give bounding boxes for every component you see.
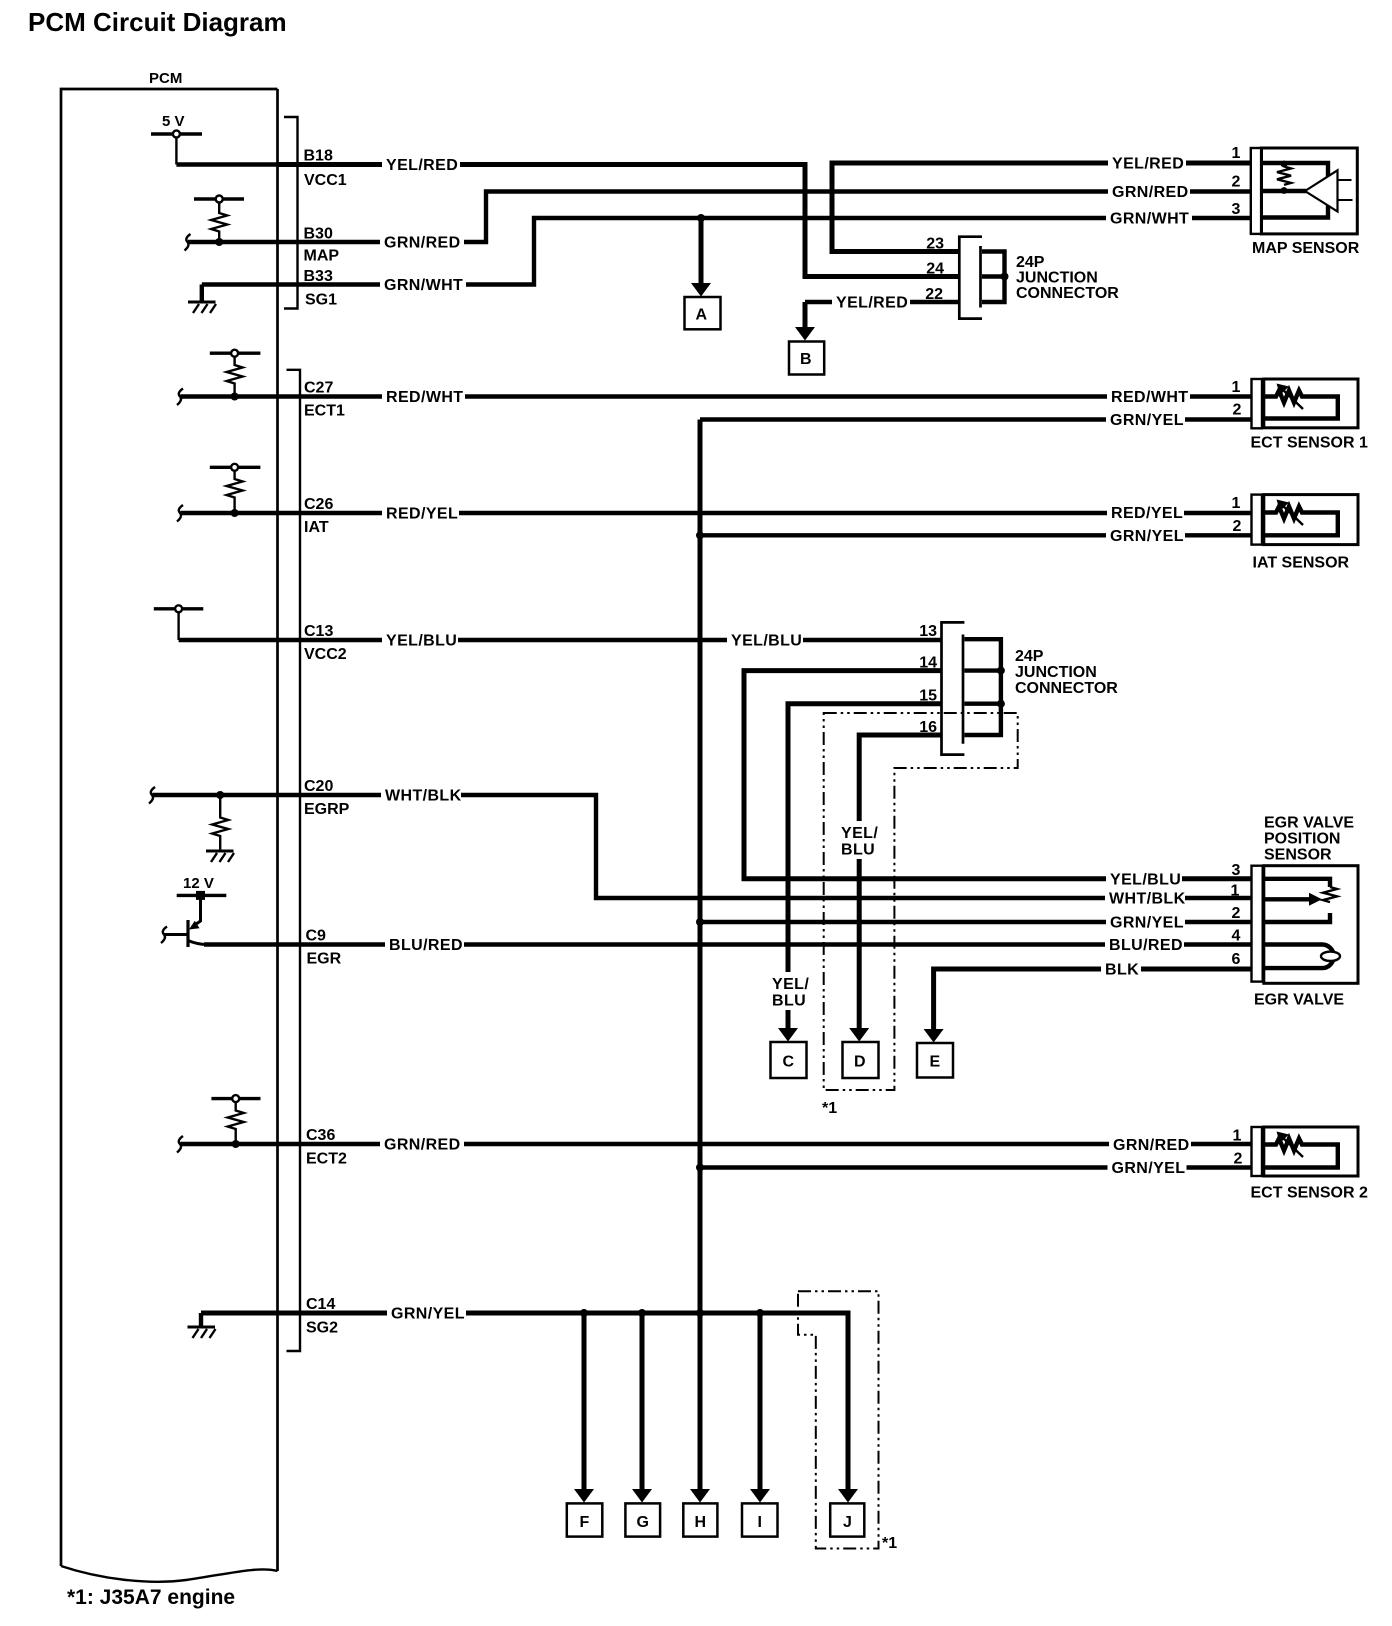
svg-text:GRN/WHT: GRN/WHT [384,277,463,294]
svg-text:YEL/: YEL/ [772,976,809,993]
resistor pull-up C36 [211,1095,260,1144]
ground C20 [206,851,234,862]
label YEL/RED MAP pin1 [1108,155,1186,173]
ground SG1 [188,285,216,314]
label YEL/BLU C13 [382,632,458,650]
junction dot C26 resistor [231,509,239,517]
label GRN/RED C36 [380,1136,464,1154]
svg-text:YEL/RED: YEL/RED [386,157,458,174]
ECT sensor 2 connector strip [1252,1127,1263,1176]
junction dot F [580,1309,588,1317]
connector bracket B group [284,117,298,309]
svg-text:WHT/BLK: WHT/BLK [385,788,462,805]
EGR valve solenoid [1264,945,1340,969]
label GRN/RED B30 [380,234,464,252]
wire B18 YEL/RED to junction pin 24 [278,165,960,277]
svg-text:C27: C27 [304,380,333,397]
wire transistor base [165,933,189,936]
svg-text:*1: *1 [882,1535,897,1552]
label YEL/BLU junction pin13 [727,632,803,650]
svg-text:GRN/RED: GRN/RED [1112,184,1189,201]
junction dot IAT GRN/YEL trunk [696,531,704,539]
wire junction pin 23 to MAP pin 1 [832,163,1251,252]
box I [742,1503,778,1536]
box A [685,297,721,329]
MAP pin numbers [1232,145,1241,218]
MAP sensor internals [1262,161,1353,218]
svg-text:EGR VALVE: EGR VALVE [1264,815,1354,832]
svg-text:1: 1 [1231,882,1240,899]
continuation tick B30 [185,234,191,251]
svg-text:MAP: MAP [304,248,340,265]
wire C9 BLU/RED to EGR pin 4 [204,942,1251,946]
svg-text:C26: C26 [304,496,333,513]
svg-text:E: E [930,1054,941,1071]
wire to F [582,1313,587,1496]
transistor Q EGR driver [188,895,207,947]
svg-text:ECT1: ECT1 [304,403,345,420]
connector bracket C group [287,370,301,1351]
junction dot H trunk [696,1309,704,1317]
label GRN/WHT MAP pin3 [1106,210,1192,228]
svg-text:1: 1 [1232,379,1241,396]
svg-text:RED/WHT: RED/WHT [1111,389,1188,406]
box F [567,1503,603,1536]
junction dot C20 resistor [216,791,224,799]
ground SG2 [188,1313,216,1338]
svg-text:RED/YEL: RED/YEL [1111,505,1183,522]
svg-text:C20: C20 [304,778,333,795]
svg-text:B30: B30 [304,226,333,243]
junction dot G [638,1309,646,1317]
svg-text:ECT SENSOR 1: ECT SENSOR 1 [1251,435,1368,452]
label RED/WHT C27 [382,388,465,406]
label GRN/RED ECT2 pin1 [1109,1136,1191,1154]
svg-text:F: F [580,1514,590,1531]
label GRN/YEL C14 [387,1305,466,1323]
box H [683,1503,717,1536]
label GRN/RED MAP pin2 [1108,183,1190,201]
svg-text:B18: B18 [304,148,333,165]
label GRN/YEL ECT2 pin2 [1108,1159,1187,1177]
svg-text:13: 13 [919,623,937,640]
junction dot trunk EGR GRN/YEL [696,918,704,926]
svg-text:GRN/RED: GRN/RED [384,235,461,252]
svg-text:EGR VALVE: EGR VALVE [1254,992,1344,1009]
label YEL/BLU EGR pin3 [1106,870,1182,888]
junction connector 1 text [1016,254,1119,302]
junction dot trunk ECT2 GRN/YEL [696,1164,704,1172]
label GRN/WHT B33 [380,276,466,294]
svg-text:*1: J35A7 engine: *1: J35A7 engine [67,1586,235,1609]
dash-dot region J *1 [798,1291,879,1548]
box C [771,1042,807,1078]
arrow to E [924,1029,944,1043]
resistor pull-up C26 [210,464,261,513]
wire C14 SG2 GRN/YEL bus [201,1313,848,1496]
box D [843,1042,879,1078]
wire junction pin 14 to EGR pin 3 YEL/BLU [744,671,1251,879]
svg-text:D: D [854,1054,866,1071]
continuation tick C20 [149,787,155,804]
svg-text:BLU/RED: BLU/RED [389,937,463,954]
continuation tick transistor base [161,927,167,944]
label YEL/RED B18 [382,156,460,174]
wire junction pin 15 to C [788,704,942,1030]
arrow to D [849,1028,869,1042]
box J [830,1503,864,1536]
label RED/YEL C26 [382,505,459,523]
junction dot I [756,1309,764,1317]
label BLU/RED C9 [385,936,464,954]
junction dot C27 resistor [231,393,239,401]
24P junction connector 1 [959,237,982,319]
label RED/WHT ECT1 pin1 [1107,388,1190,406]
label BLU/RED EGR pin4 [1105,936,1184,954]
svg-text:MAP SENSOR: MAP SENSOR [1252,240,1360,257]
label GRN/YEL ECT1 pin2 [1106,411,1185,429]
ECT sensor 2 pin numbers [1233,1128,1243,1168]
arrow to G [632,1489,652,1503]
svg-text:24P: 24P [1016,254,1045,271]
label YEL/RED pin22 [832,294,910,312]
svg-text:3: 3 [1232,862,1241,879]
svg-text:SG2: SG2 [306,1320,338,1337]
svg-text:23: 23 [926,236,944,253]
wire GRN/YEL trunk to IAT sensor pin 2 [700,533,1251,537]
ECT sensor 1 connector strip [1252,379,1263,428]
wire C36 GRN/RED to ECT sensor 2 pin 1 [181,1142,1252,1146]
arrow to C [778,1028,798,1042]
svg-text:C9: C9 [306,928,327,945]
label YEL/BLU D column [838,821,882,859]
wire C27 RED/WHT to ECT sensor 1 pin 1 [181,394,1252,398]
svg-text:3: 3 [1232,201,1241,218]
wire junction pin 16 to D [859,735,941,1030]
ECT sensor 1 thermistor [1264,384,1338,419]
ECT sensor 2 thermistor [1264,1132,1338,1168]
ECT sensor 1 pin numbers [1232,379,1242,419]
sensor ground trunk [698,420,703,1497]
svg-text:BLK: BLK [1105,962,1139,979]
resistor pull-up B30 [194,196,244,243]
svg-text:GRN/YEL: GRN/YEL [391,1306,465,1323]
svg-text:GRN/WHT: GRN/WHT [1110,211,1189,228]
svg-text:2: 2 [1232,905,1241,922]
svg-text:*1: *1 [822,1100,837,1117]
svg-text:CONNECTOR: CONNECTOR [1015,680,1118,697]
wire C13 YEL/BLU to junction pin 13 [179,638,942,642]
arrow to H [690,1489,710,1503]
label WHT/BLK EGR pin1 [1105,890,1186,908]
svg-text:4: 4 [1232,927,1241,944]
svg-text:VCC2: VCC2 [304,646,347,663]
svg-text:IAT SENSOR: IAT SENSOR [1253,555,1350,572]
5V supply VCC1 [151,113,202,165]
svg-text:C36: C36 [306,1127,335,1144]
junction dot B30 resistor [215,238,223,246]
svg-text:12 V: 12 V [183,875,214,892]
wire BLK EGR pin 6 to E [934,969,1251,1031]
label RED/YEL IAT pin1 [1107,504,1184,522]
svg-text:GRN/YEL: GRN/YEL [1110,412,1184,429]
svg-text:EGR: EGR [307,951,342,968]
svg-text:I: I [758,1514,762,1531]
EGR VALVE POSITION SENSOR label [1264,815,1354,864]
svg-text:2: 2 [1234,1151,1243,1168]
svg-text:BLU/RED: BLU/RED [1109,937,1183,954]
arrow to I [750,1489,770,1503]
EGR pin numbers [1231,862,1241,968]
EGR valve connector strip [1252,866,1263,982]
svg-text:H: H [695,1514,707,1531]
junction connector 1 right bracket [982,252,1009,303]
label WHT/BLK C20 [381,787,462,805]
svg-text:GRN/YEL: GRN/YEL [1110,915,1184,932]
continuation tick C26 [177,505,183,522]
MAP sensor box [1262,148,1358,234]
12V supply [177,875,227,900]
arrow to F [574,1489,594,1503]
svg-text:IAT: IAT [304,519,329,536]
wire to I [758,1313,763,1496]
svg-text:ECT SENSOR 2: ECT SENSOR 2 [1251,1185,1368,1202]
ECT sensor 1 box [1264,379,1358,428]
wire to G [640,1313,645,1496]
label GRN/YEL IAT pin2 [1106,527,1185,545]
svg-text:POSITION: POSITION [1264,831,1340,848]
svg-text:YEL/BLU: YEL/BLU [1110,871,1181,888]
svg-text:B: B [800,351,812,368]
svg-text:WHT/BLK: WHT/BLK [1109,891,1186,908]
svg-text:6: 6 [1232,951,1241,968]
svg-text:YEL/RED: YEL/RED [1112,156,1184,173]
svg-text:VCC1: VCC1 [304,172,347,189]
svg-text:BLU: BLU [772,993,806,1010]
wire GRN/YEL trunk to EGR pin 2 [700,920,1251,924]
IAT sensor connector strip [1252,495,1263,545]
svg-text:PCM: PCM [149,70,182,87]
svg-text:CONNECTOR: CONNECTOR [1016,285,1119,302]
PCM box [61,89,278,1582]
continuation tick C36 [177,1136,183,1153]
label YEL/BLU C column [769,972,813,1010]
svg-text:1: 1 [1233,1128,1242,1145]
svg-text:BLU: BLU [841,842,875,859]
svg-text:RED/YEL: RED/YEL [386,506,458,523]
wire GRN/YEL trunk to ECT sensor 2 pin 2 [700,1165,1251,1169]
box E [917,1043,953,1078]
svg-text:C13: C13 [304,623,333,640]
svg-text:SG1: SG1 [305,292,337,309]
svg-text:SENSOR: SENSOR [1264,847,1332,864]
box G [625,1503,660,1536]
svg-text:GRN/RED: GRN/RED [384,1137,461,1154]
svg-text:24: 24 [926,261,944,278]
junction connector 2 right bracket [964,639,1005,735]
svg-text:YEL/RED: YEL/RED [836,295,908,312]
IAT sensor pin numbers [1232,495,1242,535]
svg-text:C: C [783,1054,795,1071]
label BLK EGR pin6 [1101,961,1141,979]
svg-text:GRN/RED: GRN/RED [1113,1137,1190,1154]
svg-text:ECT2: ECT2 [306,1151,347,1168]
svg-text:YEL/BLU: YEL/BLU [731,633,802,650]
arrow to J [838,1489,858,1503]
svg-text:YEL/BLU: YEL/BLU [386,633,457,650]
svg-text:A: A [696,307,708,324]
svg-text:2: 2 [1233,402,1242,419]
IAT sensor thermistor [1264,500,1338,536]
svg-text:C14: C14 [306,1296,335,1313]
svg-text:EGRP: EGRP [304,801,350,818]
svg-text:B33: B33 [304,268,333,285]
svg-text:1: 1 [1232,145,1241,162]
svg-text:G: G [637,1514,649,1531]
svg-text:2: 2 [1232,174,1241,191]
arrow to B [795,302,815,341]
svg-text:J: J [843,1514,852,1531]
IAT sensor box [1264,495,1358,545]
arrow to A [691,218,711,297]
svg-text:PCM Circuit Diagram: PCM Circuit Diagram [28,7,287,37]
svg-text:GRN/YEL: GRN/YEL [1112,1160,1186,1177]
EGR valve box [1264,866,1358,984]
dash-dot region D *1 [824,713,1018,1090]
ECT sensor 2 box [1264,1127,1358,1176]
svg-text:2: 2 [1233,518,1242,535]
svg-text:22: 22 [925,286,943,303]
svg-text:GRN/YEL: GRN/YEL [1110,528,1184,545]
24P junction connector 2 [942,622,965,754]
wire C26 RED/YEL to IAT sensor pin 1 [181,511,1252,515]
svg-text:5 V: 5 V [162,113,185,130]
svg-text:YEL/: YEL/ [841,825,878,842]
resistor pull-up C27 [210,350,261,397]
svg-text:JUNCTION: JUNCTION [1016,270,1098,287]
continuation tick C27 [177,389,183,406]
MAP sensor connector strip [1251,148,1261,234]
5V supply VCC2 [154,605,204,640]
EGR position sensor potentiometer [1264,879,1337,922]
svg-text:JUNCTION: JUNCTION [1015,664,1097,681]
svg-text:24P: 24P [1015,648,1044,665]
resistor C20 to ground [212,795,228,851]
svg-text:1: 1 [1232,495,1241,512]
wire B18 VCC1 from 5V to pin [176,162,277,166]
svg-text:RED/WHT: RED/WHT [386,389,463,406]
wire GRN/YEL trunk to ECT sensor 1 pin 2 [700,417,1251,421]
junction connector 2 text [1015,648,1118,697]
wire YEL/RED junction pin 22 to B [805,300,959,304]
wire C20 WHT/BLK to EGR pin 1 [153,795,1252,898]
wire B33 SG1 GRN/WHT to MAP pin 3 [202,218,1251,285]
node A junction dot [697,214,705,222]
junction dot C36 resistor [232,1140,240,1148]
wire B30 MAP [188,192,1251,243]
label GRN/YEL EGR pin2 [1106,914,1185,932]
box B [789,342,824,375]
